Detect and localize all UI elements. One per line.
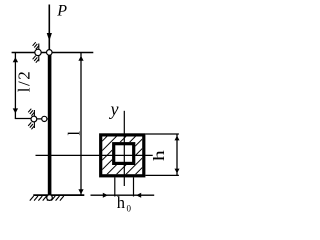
svg-text:l/2: l/2 (14, 70, 33, 92)
h0 dimension line (91, 193, 155, 198)
mid support hatching (28, 109, 34, 130)
mid hinge circle (42, 116, 47, 121)
section cut axis line (36, 154, 153, 156)
svg-text:l: l (64, 131, 83, 136)
top horizontal bar (12, 52, 94, 54)
dimension l line (78, 53, 83, 195)
section hatching (95, 131, 150, 177)
top hinge circle (47, 50, 53, 56)
svg-text:h: h (151, 150, 169, 161)
h dimension line (175, 134, 180, 175)
mid link line (31, 118, 48, 120)
svg-text:h0: h0 (117, 193, 132, 214)
h0 extension lines (115, 177, 134, 196)
column (bar) (48, 52, 52, 195)
svg-text:P: P (56, 2, 67, 19)
ground line (33, 194, 84, 196)
y axis line (123, 111, 125, 186)
dimension l/2 line (13, 53, 31, 119)
top support hatching (33, 42, 39, 63)
ground hatching (30, 196, 64, 201)
outer square of cross-section (101, 135, 144, 176)
force P arrow (47, 5, 52, 51)
svg-text:y: y (109, 99, 119, 119)
mid roller circle (31, 116, 37, 122)
base hinge circle (47, 195, 53, 201)
top roller circle (35, 49, 41, 55)
h extension lines (145, 134, 179, 175)
inner square (hole) of cross-section (114, 144, 134, 164)
